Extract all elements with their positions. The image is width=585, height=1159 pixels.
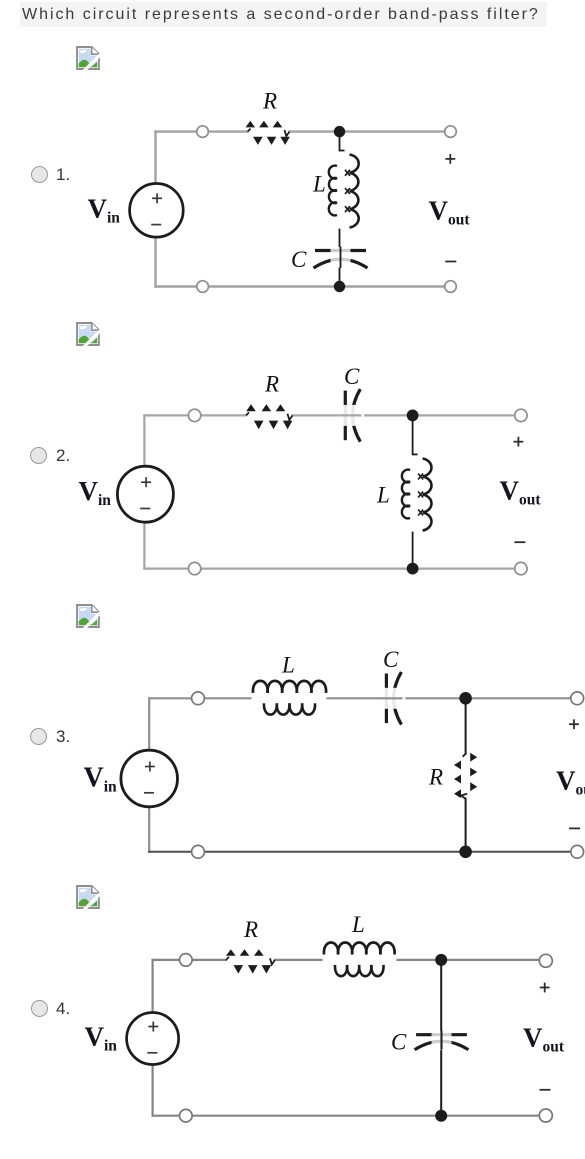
voltage source Vin c1: [130, 184, 184, 238]
resistor R c2: [246, 404, 293, 429]
node shunt top c3: [459, 692, 472, 705]
polarity minus output c3: [569, 827, 580, 829]
wire top rail left c1: [156, 130, 248, 132]
terminal bottom right c1: [445, 281, 457, 293]
radio option 3: [30, 728, 47, 745]
polarity minus output c4: [540, 1089, 551, 1091]
inductor L c3: [253, 681, 326, 715]
terminal top right c3: [571, 692, 584, 705]
polarity plus output c4: [540, 983, 550, 993]
node shunt top c2: [407, 410, 419, 422]
wire shunt top lead c2: [412, 415, 414, 454]
wire top rail right c1: [290, 130, 451, 132]
wire bottom rail c4: [153, 1115, 546, 1117]
terminal bottom right c2: [515, 562, 527, 574]
inductor L c2: [402, 459, 432, 531]
node branch bottom c1: [334, 281, 345, 292]
circuit option 1: series R, shunt L-C branch: [88, 89, 471, 293]
node shunt bottom c3: [459, 846, 472, 859]
capacitor C c2: [340, 389, 364, 442]
circuit option 4: series R-L, shunt C: [85, 912, 565, 1122]
wire left vertical c4: [152, 960, 154, 1116]
terminal top right c2: [515, 409, 527, 421]
node branch top c1: [334, 126, 345, 137]
polarity plus output c3: [569, 719, 579, 729]
svg-text:Vin: Vin: [84, 763, 118, 796]
svg-text:L: L: [312, 172, 326, 197]
svg-text:C: C: [344, 364, 360, 389]
node shunt top c4: [435, 954, 447, 966]
wire top rail right c2: [293, 414, 521, 416]
svg-text:R: R: [262, 89, 277, 114]
svg-text:Vout: Vout: [500, 476, 542, 509]
svg-text:R: R: [428, 765, 443, 790]
svg-text:Vin: Vin: [85, 1022, 118, 1055]
resistor R c4: [226, 949, 275, 973]
terminal top right c4: [539, 954, 552, 967]
terminal bottom right c4: [539, 1109, 552, 1122]
svg-text:C: C: [291, 247, 307, 272]
svg-text:L: L: [351, 912, 365, 937]
resistor R c1: [246, 121, 290, 145]
circuit option 3: series L-C, shunt R: [84, 647, 585, 858]
broken image icon: [76, 885, 100, 909]
terminal bottom left c3: [192, 845, 205, 858]
terminal bottom left c1: [197, 281, 209, 293]
wire bottom rail c3: [149, 851, 577, 853]
wire branch top lead c1: [339, 132, 341, 151]
question title: [20, 2, 547, 27]
svg-text:Vout: Vout: [429, 196, 471, 229]
svg-text:C: C: [391, 1030, 407, 1055]
radio option 1: [31, 166, 48, 183]
voltage source Vin c3: [121, 750, 178, 807]
wire top rail left c2: [144, 414, 246, 416]
wire top rail mid c4: [275, 959, 322, 961]
svg-text:Vin: Vin: [79, 476, 112, 509]
radio option 2: [30, 447, 47, 464]
circuit option 2: series R-C, shunt L: [79, 364, 542, 575]
terminal bottom left c2: [188, 562, 200, 574]
wire branch mid lead c1: [339, 230, 341, 247]
capacitor C c4: [415, 1031, 469, 1051]
broken image icon: [76, 46, 100, 70]
terminal top left c3: [192, 692, 205, 705]
svg-text:Vin: Vin: [88, 194, 121, 227]
capacitor C c1: [314, 247, 368, 269]
wire top rail right c4: [398, 959, 546, 961]
resistor R c3: [454, 753, 477, 799]
broken image icon: [76, 604, 100, 628]
polarity plus output c1: [445, 154, 455, 164]
terminal top left c2: [188, 409, 200, 421]
wire left vertical c2: [143, 415, 145, 568]
inductor L c4: [324, 943, 395, 977]
svg-text:Vout: Vout: [556, 766, 585, 799]
broken image icon: [76, 322, 100, 346]
wire branch bottom lead c1: [339, 269, 341, 287]
svg-text:L: L: [281, 653, 295, 678]
wire left vertical c1: [154, 132, 156, 287]
wire top rail left c3: [149, 697, 250, 699]
wire top rail right c3: [328, 697, 578, 699]
node shunt bottom c4: [435, 1110, 447, 1122]
capacitor C c3: [381, 672, 405, 725]
wire shunt bottom lead c2: [412, 533, 414, 569]
polarity minus output c1: [445, 261, 456, 263]
voltage source Vin c4: [127, 1013, 179, 1065]
svg-text:R: R: [264, 372, 279, 397]
polarity plus output c2: [514, 437, 524, 447]
svg-text:Vout: Vout: [523, 1023, 565, 1056]
wire top rail left c4: [153, 959, 226, 961]
svg-text:C: C: [383, 647, 399, 672]
wire shunt bottom lead c3: [465, 799, 467, 852]
wire shunt top lead c3: [465, 698, 467, 753]
svg-text:L: L: [376, 483, 390, 508]
voltage source Vin c2: [117, 466, 173, 522]
terminal bottom left c4: [180, 1109, 193, 1122]
wire shunt lead c4: [440, 960, 442, 1116]
wire bottom rail c2: [144, 567, 521, 569]
wire bottom rail c1: [156, 285, 451, 287]
polarity minus output c2: [514, 541, 525, 543]
inductor L c1: [329, 155, 359, 228]
svg-text:R: R: [243, 917, 258, 942]
terminal bottom right c3: [571, 845, 584, 858]
wire left vertical c3: [148, 698, 150, 852]
terminal top right c1: [445, 126, 457, 138]
terminal top left c1: [197, 126, 209, 138]
node shunt bottom c2: [407, 563, 419, 575]
radio option 4: [31, 1000, 48, 1017]
terminal top left c4: [180, 954, 193, 967]
